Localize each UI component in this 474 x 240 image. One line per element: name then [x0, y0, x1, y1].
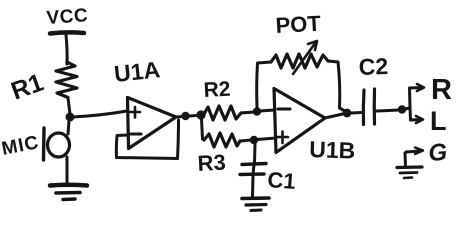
wire node A down to mic	[68, 121, 69, 134]
wire R2 to node B	[241, 112, 254, 113]
svg-text:R: R	[431, 74, 452, 106]
wire R1 to node A	[68, 98, 70, 114]
op-amp U1B	[274, 89, 325, 153]
wire U1B output	[325, 113, 347, 118]
svg-text:U1B: U1B	[309, 136, 356, 164]
U1A feedback loop	[116, 120, 178, 159]
node output split	[398, 105, 406, 113]
wire U1A output	[176, 115, 203, 117]
ground (C1)	[242, 196, 269, 200]
node B (U1B - input)	[253, 107, 261, 115]
VCC rail bar	[50, 32, 84, 33]
svg-text:MIC: MIC	[0, 132, 41, 160]
wire node B to U1B -	[260, 110, 274, 111]
resistor R3	[204, 133, 240, 147]
svg-text:C1: C1	[267, 167, 297, 194]
svg-text:L: L	[430, 106, 447, 136]
resistor R1	[56, 62, 77, 98]
wire mic to ground	[66, 157, 69, 184]
svg-text:G: G	[428, 139, 449, 167]
svg-text:VCC: VCC	[46, 5, 89, 29]
ground output G	[405, 151, 420, 167]
svg-text:U1A: U1A	[113, 56, 161, 87]
node U1B output	[343, 109, 352, 118]
capacitor C2	[351, 111, 361, 115]
microphone MIC	[48, 133, 70, 157]
POT left leg	[257, 62, 271, 108]
POT wiper arrow	[293, 42, 316, 74]
wire R3 to node C	[240, 140, 251, 141]
node U1A output (feedback tap)	[181, 112, 189, 120]
svg-text:R3: R3	[197, 150, 226, 176]
node A (R1/MIC/U1A junction)	[66, 113, 75, 122]
POT right leg	[328, 61, 345, 111]
R/L fork	[405, 88, 422, 110]
wire node C to U1B +	[257, 138, 276, 140]
wire split down to R3	[202, 119, 203, 139]
wire VCC to R1	[66, 35, 67, 64]
resistor R2	[204, 106, 241, 120]
potentiometer POT	[271, 54, 328, 68]
node R2/R3 split	[196, 110, 205, 119]
node C (U1B + input)	[250, 136, 258, 144]
capacitor C1	[253, 144, 257, 163]
svg-text:R2: R2	[203, 78, 231, 102]
op-amp U1A	[128, 98, 177, 149]
svg-text:C2: C2	[358, 53, 388, 80]
ground (mic)	[50, 183, 87, 188]
svg-text:R1: R1	[7, 68, 47, 105]
wire node A to U1A + input	[73, 111, 127, 117]
svg-text:POT: POT	[275, 11, 322, 38]
